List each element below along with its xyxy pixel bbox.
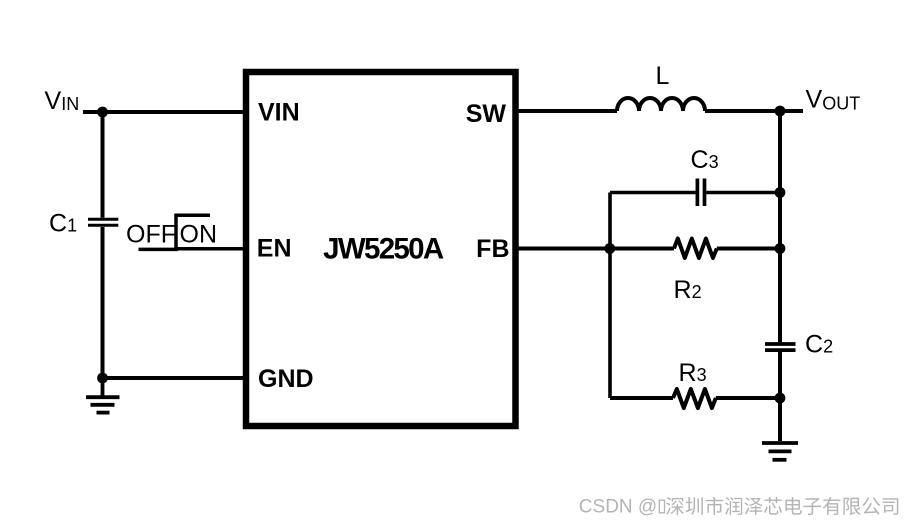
junction VOUT-C3 node bbox=[775, 187, 786, 198]
wire C1 to ground node bbox=[101, 227, 105, 378]
svg-text:CSDN @: CSDN @ bbox=[579, 497, 657, 518]
capacitor C2 bbox=[765, 344, 796, 350]
svg-text:VIN: VIN bbox=[258, 99, 300, 127]
wire VIN node down to C1 bbox=[101, 112, 105, 218]
svg-text:EN: EN bbox=[257, 235, 292, 263]
wire pin SW to inductor bbox=[516, 109, 618, 113]
wire C3 to VOUT rail bbox=[706, 191, 780, 195]
junction FB node bbox=[604, 243, 615, 254]
wire ground node to pin GND bbox=[103, 376, 247, 380]
inductor L bbox=[617, 98, 705, 111]
svg-text:GND: GND bbox=[258, 365, 314, 393]
EN enable step waveform bbox=[139, 215, 211, 249]
wire VIN input to pin VIN bbox=[83, 110, 246, 114]
IC U1 JW5250A body bbox=[246, 72, 516, 426]
ground symbol right bbox=[762, 443, 798, 460]
svg-text:L: L bbox=[656, 62, 670, 90]
ground symbol left bbox=[86, 378, 120, 413]
resistor R3 bbox=[673, 389, 716, 408]
svg-text:SW: SW bbox=[466, 100, 507, 128]
svg-text:FB: FB bbox=[476, 235, 509, 263]
wire EN waveform to pin EN bbox=[176, 247, 246, 251]
wire C2 to R3 node bbox=[778, 352, 782, 398]
svg-text:ON: ON bbox=[180, 220, 218, 248]
junction VOUT node bbox=[775, 106, 786, 117]
capacitor C1 bbox=[88, 219, 118, 225]
junction ground node bbox=[97, 373, 108, 384]
junction VIN node bbox=[97, 107, 108, 118]
wire R3 to ground node bbox=[716, 396, 780, 400]
wire R2 to VOUT rail bbox=[717, 247, 780, 251]
svg-text:OFF: OFF bbox=[126, 220, 176, 248]
wire FB branch vertical bbox=[608, 193, 612, 399]
wire VOUT rail down to C2 bbox=[778, 111, 782, 342]
watermark CSDN text bbox=[579, 497, 900, 519]
capacitor C3 bbox=[697, 179, 704, 207]
junction VOUT-R2 node bbox=[775, 243, 786, 254]
junction R3-C2-ground node bbox=[775, 393, 786, 404]
wire pin FB to R2 bbox=[516, 247, 675, 251]
wire inductor to VOUT bbox=[705, 109, 803, 113]
wire node to ground right bbox=[778, 398, 782, 441]
resistor R2 bbox=[674, 239, 717, 259]
svg-text:JW5250A: JW5250A bbox=[323, 232, 444, 265]
wire FB branch corner to C3 bbox=[610, 191, 696, 195]
wire FB branch to R3 bbox=[610, 396, 673, 400]
